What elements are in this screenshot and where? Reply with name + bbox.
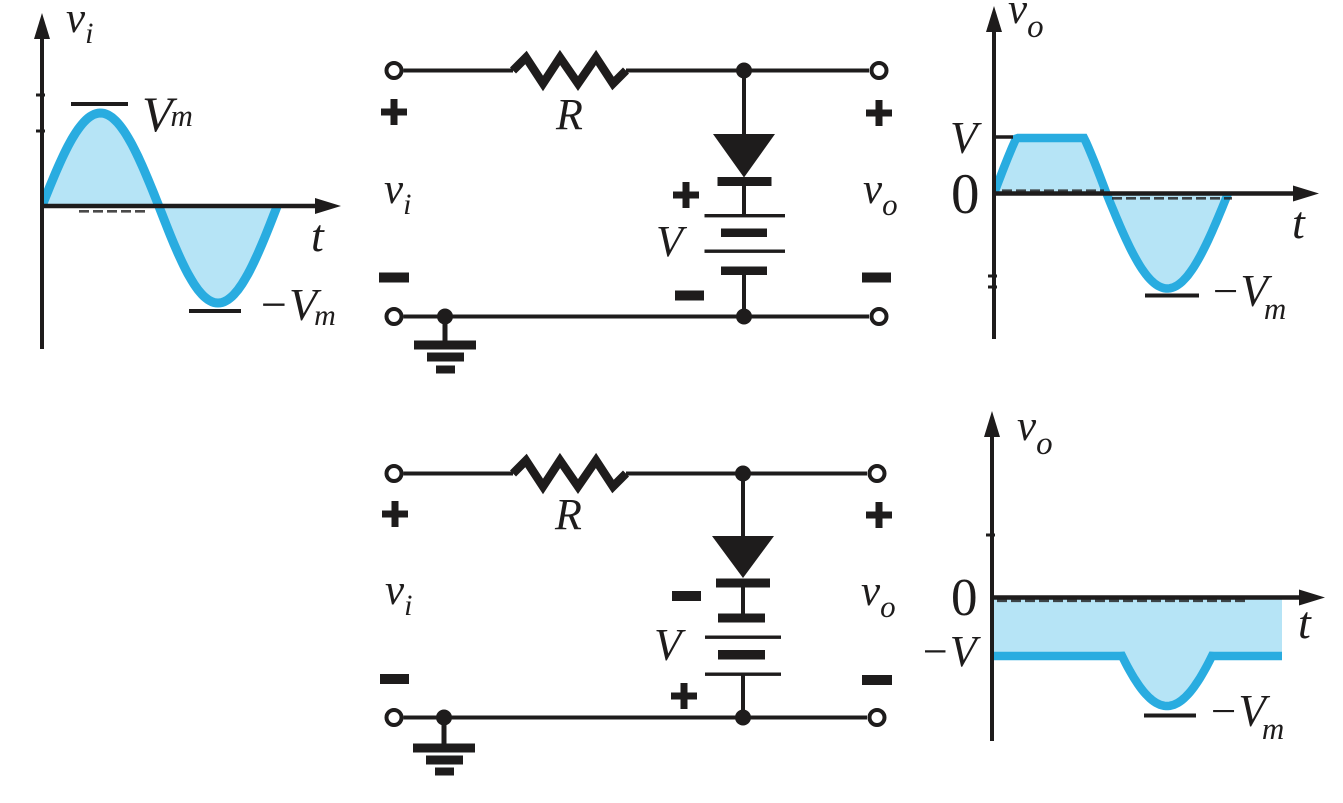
axis tick marks [36, 95, 45, 131]
ground stem [442, 718, 447, 745]
svg-text:V: V [950, 113, 982, 163]
battery plate short thick [718, 614, 765, 623]
label + battery [671, 683, 697, 709]
output waveform graph 1 (v_o clipped at V) [950, 0, 1319, 339]
svg-text:V: V [654, 620, 686, 670]
ground bar 1 [414, 341, 476, 350]
label + input [381, 99, 407, 125]
tick Vm [71, 102, 128, 106]
svg-text:R: R [554, 490, 582, 539]
axis v_o vertical [992, 31, 996, 339]
ground bar 2 [427, 353, 464, 362]
dashed zero-line remnant [79, 210, 148, 213]
tick -Vm [189, 309, 241, 313]
wire top-right [626, 472, 867, 476]
label - output [862, 273, 891, 283]
terminal input bottom [387, 309, 402, 324]
label + output [866, 502, 892, 528]
clipper circuit 1 (positive clipper with battery V) [379, 58, 898, 374]
label - battery [675, 291, 704, 301]
label - input [379, 273, 409, 283]
ground bar 3 [435, 768, 454, 776]
axis tick [986, 534, 995, 537]
diode D anode triangle [712, 536, 774, 578]
axis v_o arrowhead [986, 6, 1002, 32]
terminal output top [870, 466, 885, 481]
axis t horizontal [992, 595, 1302, 600]
terminal input top [387, 466, 402, 481]
axis t arrowhead [315, 198, 341, 214]
node junction bottom [735, 710, 751, 726]
ground bar 1 [413, 744, 475, 753]
diode cathode bar [718, 177, 772, 186]
svg-text:−V: −V [920, 627, 982, 676]
ground junction dot [437, 309, 453, 325]
sine wave stroke [42, 113, 277, 303]
node junction top [736, 63, 752, 79]
battery plate long [705, 636, 781, 639]
resistor R [513, 461, 626, 487]
node junction top [735, 466, 751, 482]
diode D anode triangle [713, 134, 775, 178]
wire node to diode [742, 71, 746, 136]
wire bottom [404, 315, 870, 319]
svg-text:0: 0 [951, 569, 978, 627]
svg-text:t: t [1292, 197, 1306, 248]
ground stem [443, 317, 448, 342]
axis t horizontal [42, 204, 318, 209]
clipped wave fill [994, 138, 1228, 289]
clipped wave fill [992, 598, 1282, 707]
output waveform graph 2 (v_o clipped at -V) [920, 403, 1325, 746]
axis t horizontal [994, 191, 1296, 196]
terminal output bottom [870, 710, 885, 725]
ground bar 3 [436, 366, 455, 374]
terminal output bottom [872, 309, 887, 324]
axis v_i arrowhead [34, 13, 50, 39]
axis t arrowhead [1293, 186, 1319, 202]
wire battery to bottom [742, 274, 746, 317]
label - output [862, 675, 892, 685]
ground bar 2 [426, 756, 463, 765]
svg-text:0: 0 [951, 163, 980, 226]
tick -Vm [1145, 294, 1199, 298]
wire node to diode [741, 474, 745, 538]
svg-text:R: R [555, 90, 583, 139]
label + battery [673, 182, 699, 208]
battery plate long 2 [705, 673, 781, 676]
dashed zero-line remnant right [1112, 197, 1232, 200]
dashed zero-line remnant [1002, 189, 1104, 192]
dashed zero-line remnant [997, 599, 1248, 602]
diode cathode bar [716, 579, 770, 588]
axis v_i vertical [40, 36, 44, 349]
terminal input top [387, 63, 402, 78]
ground junction dot [436, 710, 452, 726]
axis v_o arrowhead [984, 411, 1000, 437]
wire battery to bottom [741, 674, 745, 718]
battery plate short thick 2 [718, 650, 765, 660]
sine wave fill [42, 113, 277, 303]
label - input [380, 674, 409, 684]
battery V plate long [705, 214, 786, 217]
svg-text:t: t [1298, 597, 1312, 648]
clipped wave stroke [992, 656, 1282, 706]
wire top-left [404, 472, 514, 476]
input waveform graph (v_i vs t) [34, 0, 341, 349]
resistor R [513, 58, 626, 84]
axis ticks [988, 276, 997, 287]
label - battery [672, 591, 701, 601]
wire diode to battery [742, 186, 746, 216]
terminal input bottom [387, 710, 402, 725]
tick -Vm [1144, 714, 1196, 718]
battery plate short thick [721, 229, 767, 238]
clipper circuit 2 (negative clipper with reversed battery) [380, 461, 896, 776]
svg-text:t: t [311, 210, 325, 261]
axis t arrowhead [1299, 590, 1325, 606]
wire top-left [404, 69, 514, 73]
battery plate long 2 [705, 250, 786, 253]
axis v_o vertical [990, 431, 994, 741]
label + input [382, 501, 408, 527]
clipped wave stroke [994, 138, 1228, 289]
wire diode to battery [741, 587, 745, 614]
node junction bottom [736, 309, 752, 325]
wire bottom [404, 716, 868, 720]
terminal output top [872, 63, 887, 78]
battery plate short thick 2 [721, 267, 767, 276]
tick V level [994, 135, 1013, 139]
label + output [866, 100, 892, 126]
wire top-right [626, 69, 869, 73]
